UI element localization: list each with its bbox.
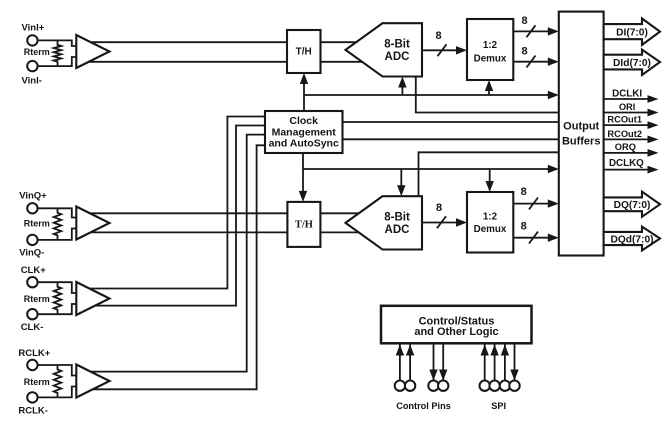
wire CLK- to amp: [38, 304, 78, 314]
arrowhead Demux1 lower bus into Output Buffers: [548, 58, 559, 66]
svg-text:8-Bit: 8-Bit: [384, 212, 410, 224]
arrowhead clock into ADC1: [398, 77, 406, 88]
output bus arrow DQ(7:0): [604, 192, 660, 217]
svg-text:1:2: 1:2: [483, 40, 498, 51]
svg-text:DQd(7:0): DQd(7:0): [610, 234, 653, 245]
arrowhead SPI pin up at x=484.7: [481, 345, 489, 356]
svg-text:8: 8: [521, 186, 527, 198]
bus slash Demux2 lower: [529, 232, 538, 244]
resistor Rterm (RCLK): [54, 365, 62, 397]
wire clock branch to Demux1: [488, 91, 490, 96]
arrowhead control pin down at x=443.2: [439, 370, 447, 381]
svg-text:Clock: Clock: [289, 115, 318, 127]
svg-text:DCLKI: DCLKI: [612, 89, 642, 100]
output DCLKI: [604, 98, 648, 100]
wire VinI amp to T/H bottom: [89, 61, 287, 63]
wire ADC2 output bus: [422, 222, 459, 224]
svg-text:Rterm: Rterm: [24, 377, 50, 387]
svg-text:DI(7:0): DI(7:0): [616, 28, 648, 39]
arrowhead Demux1 upper bus into Output Buffers: [548, 27, 559, 35]
wire Demux1 output bus upper: [513, 30, 549, 32]
wire VinI amp to T/H top: [89, 41, 287, 43]
bus slash ADC1 output: [438, 44, 447, 56]
wire VinI- to amp: [38, 57, 78, 66]
wire Demux1 output bus lower: [513, 61, 549, 63]
wire control pin input 1: [399, 345, 401, 382]
wire control pin output 1: [433, 345, 435, 382]
output ORQ: [604, 152, 648, 154]
wire ORI from ADC1 to Output Buffers: [416, 77, 559, 113]
block T/H 2: [287, 202, 320, 247]
terminal VinI+: [27, 35, 37, 45]
block Clock Management and AutoSync: [265, 111, 343, 153]
wire RCLK+ amp to clock block: [88, 135, 265, 372]
resistor Rterm (VinQ): [54, 208, 62, 240]
svg-text:1:2: 1:2: [483, 211, 498, 222]
wire clock to T/H1: [303, 84, 305, 112]
arrowhead SPI pin up at x=494.6: [490, 345, 498, 356]
arrowhead SPI pin down at x=514.5: [510, 370, 518, 381]
svg-text:Rterm: Rterm: [24, 294, 50, 304]
arrowhead clock into T/H2: [299, 191, 307, 202]
block Output Buffers: [559, 12, 604, 256]
wire CLK- amp to clock block: [88, 126, 265, 306]
svg-text:RCOut2: RCOut2: [607, 129, 642, 139]
output RCOut2: [604, 138, 648, 140]
svg-text:ADC: ADC: [385, 51, 410, 63]
wire clock branch to Demux2: [489, 169, 491, 182]
arrowhead clock into ADC2: [397, 185, 405, 196]
svg-text:Demux: Demux: [474, 224, 507, 235]
wire RCLK+ to amp: [38, 365, 78, 376]
wire clock to T/H2: [302, 153, 304, 191]
output bus arrow DId(7:0): [604, 50, 660, 75]
arrowhead control pin down at x=433.5: [429, 370, 437, 381]
svg-text:Output: Output: [563, 121, 599, 133]
bus slash Demux2 upper: [529, 198, 538, 210]
wire clock distribution I: [304, 94, 549, 96]
arrowhead ADC2 bus into Demux2: [456, 218, 467, 226]
arrowhead clock into T/H1: [300, 73, 308, 84]
output RCOut1: [604, 124, 648, 126]
svg-text:CLK-: CLK-: [21, 322, 44, 333]
amplifier buffer U1 (VinI): [76, 35, 109, 68]
arrowhead DCLKQ clock into Output Buffers: [548, 165, 559, 173]
block Demux1 1:2 Demux: [467, 19, 513, 80]
svg-text:Control Pins: Control Pins: [396, 401, 451, 411]
wire RCLK- to amp: [38, 387, 78, 398]
wire control pin output 2: [442, 345, 444, 382]
bus slash Demux1 upper: [527, 25, 536, 37]
wire ORQ from ADC2 to Output Buffers: [419, 152, 559, 196]
terminal SPI pin 4: [509, 381, 519, 391]
svg-text:VinQ+: VinQ+: [19, 191, 47, 202]
wire control pin input 2: [409, 345, 411, 382]
block ADC1 8-Bit ADC: [346, 23, 423, 76]
arrowhead Demux2 lower bus into Output Buffers: [548, 234, 559, 242]
terminal control pin 1: [395, 381, 405, 391]
amplifier buffer U3 (CLK): [76, 282, 109, 315]
svg-text:RCOut1: RCOut1: [607, 115, 642, 125]
wire SPI input 3: [504, 345, 506, 382]
wire VinQ amp to T/H2 top: [89, 212, 287, 214]
svg-text:DId(7:0): DId(7:0): [613, 58, 651, 69]
svg-text:8: 8: [521, 45, 527, 57]
wire SPI output 1: [514, 345, 516, 382]
svg-text:DCLKQ: DCLKQ: [609, 158, 644, 169]
block Control/Status and Other Logic: [381, 306, 532, 344]
wire Demux2 output bus upper: [513, 203, 549, 205]
svg-text:VinQ-: VinQ-: [19, 247, 44, 258]
svg-text:Rterm: Rterm: [24, 47, 50, 57]
terminal control pin 3: [428, 381, 438, 391]
wire SPI input 1: [484, 345, 486, 382]
svg-text:and Other Logic: and Other Logic: [414, 326, 498, 338]
wire T/H2 to ADC2 top: [320, 212, 362, 214]
arrowhead clock into Demux2: [486, 181, 494, 192]
resistor Rterm (VinI): [54, 40, 62, 66]
block Demux2 1:2 Demux: [467, 192, 513, 253]
wire CLK+ amp to clock block: [88, 117, 265, 289]
wire Demux2 output bus lower: [513, 237, 549, 239]
svg-text:ADC: ADC: [385, 224, 410, 236]
svg-text:RCLK-: RCLK-: [18, 405, 48, 416]
svg-text:CLK+: CLK+: [21, 265, 47, 276]
wire clock branch to ADC1: [401, 87, 403, 95]
block T/H 1: [287, 30, 321, 73]
terminal SPI pin 1: [480, 381, 490, 391]
output bus arrow DI(7:0): [604, 19, 660, 45]
svg-text:SPI: SPI: [491, 401, 506, 411]
svg-text:T/H: T/H: [296, 47, 312, 58]
arrowhead control pin up at x=399.9: [396, 345, 404, 356]
wire T/H2 to ADC2 bottom: [320, 231, 362, 233]
terminal control pin 2: [405, 381, 415, 391]
block ADC2 8-Bit ADC: [346, 196, 423, 249]
output DCLKQ: [604, 169, 648, 171]
terminal VinQ+: [27, 203, 37, 213]
wire SPI input 2: [494, 345, 496, 382]
svg-text:VinI-: VinI-: [22, 76, 42, 87]
svg-text:DQ(7:0): DQ(7:0): [614, 200, 651, 211]
svg-text:RCLK+: RCLK+: [18, 348, 50, 359]
svg-text:Buffers: Buffers: [562, 135, 601, 147]
svg-text:8: 8: [436, 202, 442, 214]
resistor Rterm (CLK): [54, 282, 62, 314]
svg-text:VinI+: VinI+: [22, 22, 45, 33]
terminal control pin 4: [438, 381, 448, 391]
wire VinI+ to amp: [38, 40, 78, 46]
wire RCOut2: [343, 138, 559, 140]
svg-text:Rterm: Rterm: [24, 219, 50, 229]
arrowhead Demux2 upper bus into Output Buffers: [548, 199, 559, 207]
arrowhead clock into Demux1: [485, 80, 493, 91]
bus slash ADC2 output: [437, 216, 446, 228]
arrowhead control pin up at x=410.1: [406, 345, 414, 356]
wire ADC1 output bus: [422, 49, 459, 51]
terminal RCLK+: [27, 360, 37, 370]
output bus arrow DQd(7:0): [604, 227, 660, 251]
bus slash Demux1 lower: [527, 56, 536, 68]
arrowhead SPI pin up at x=504.9: [501, 345, 509, 356]
svg-text:8-Bit: 8-Bit: [384, 39, 410, 51]
output ORI: [604, 112, 648, 114]
amplifier buffer U2 (VinQ): [76, 207, 109, 240]
terminal VinQ-: [27, 235, 37, 245]
terminal SPI pin 3: [500, 381, 510, 391]
wire VinQ+ to amp: [38, 208, 78, 217]
wire RCOut1: [343, 121, 559, 123]
terminal VinI-: [27, 61, 37, 71]
wire VinQ- to amp: [38, 229, 78, 240]
svg-text:T/H: T/H: [295, 219, 313, 230]
wire clock distribution Q: [303, 168, 549, 170]
terminal SPI pin 2: [489, 381, 499, 391]
svg-text:Management: Management: [272, 126, 337, 138]
terminal CLK-: [27, 309, 37, 319]
wire clock branch to ADC2: [400, 169, 402, 186]
arrowhead DCLKI clock into Output Buffers: [548, 91, 559, 99]
arrowhead ADC1 bus into Demux1: [456, 46, 467, 54]
wire RCLK- amp to clock block: [88, 145, 265, 389]
svg-text:8: 8: [435, 30, 441, 42]
svg-text:ORI: ORI: [619, 102, 636, 112]
amplifier buffer U4 (RCLK): [76, 365, 109, 398]
wire T/H1 to ADC1 top: [321, 41, 363, 43]
svg-text:8: 8: [521, 220, 527, 232]
wire VinQ amp to T/H2 bottom: [89, 231, 287, 233]
wire T/H1 to ADC1 bottom: [321, 61, 363, 63]
wire CLK+ to amp: [38, 282, 78, 293]
svg-text:and AutoSync: and AutoSync: [269, 138, 339, 150]
svg-text:8: 8: [521, 15, 527, 27]
terminal CLK+: [27, 277, 37, 287]
svg-text:Demux: Demux: [474, 53, 507, 64]
terminal RCLK-: [27, 392, 37, 402]
svg-text:ORQ: ORQ: [615, 142, 636, 152]
